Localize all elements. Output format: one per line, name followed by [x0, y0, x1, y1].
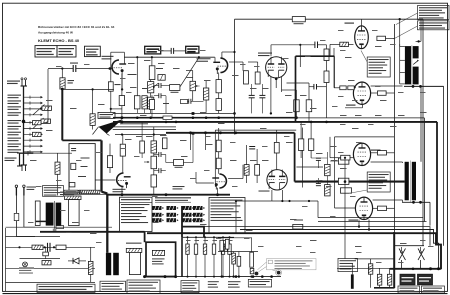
resistor on stub 7 [33, 132, 42, 136]
wire R67 [141, 122, 143, 141]
thick wire y231 [40, 231, 145, 233]
wire R2 to bus [110, 91, 112, 113]
resistor R49 screen4 [378, 206, 387, 210]
OT1 tap arrow [413, 61, 418, 65]
wire EL34-2 left [334, 87, 340, 89]
note text E [228, 281, 241, 287]
wire top y19 [235, 18, 424, 20]
resistor R54 psu [88, 261, 93, 274]
diagonal wire to V1b grid [180, 58, 199, 87]
wire EL34-4 left [335, 207, 356, 209]
wire tone top [161, 50, 172, 52]
filter capacitor C17 [195, 237, 197, 244]
terminal pin r3c3 [182, 218, 192, 222]
leader OT2 [348, 190, 367, 194]
speaker line 4 [240, 230, 439, 269]
resistor R36 [308, 139, 313, 151]
tube V4 [267, 170, 287, 190]
psu wire y282 [6, 281, 96, 283]
bus dots row [136, 116, 139, 119]
tube V3b [212, 174, 226, 190]
resistor R15 [255, 72, 260, 84]
terminal pin r3c2 [167, 218, 177, 222]
resistor R58 [237, 256, 241, 266]
wire R10 [218, 73, 220, 80]
tube EL34 no2 [353, 82, 370, 104]
filter cap label 5 [222, 239, 227, 242]
leader OT1 note [361, 51, 367, 63]
wire x424 down [423, 118, 425, 222]
component on bus [163, 116, 172, 119]
capacitor C4b [159, 93, 161, 98]
capacitor C10 [159, 168, 161, 173]
resistor R43 grid1 [340, 42, 349, 46]
resistor R51 bias [387, 274, 391, 285]
wire R60 top [326, 45, 328, 49]
resistor R25 [151, 141, 157, 153]
OT2 center line [409, 161, 411, 203]
wire r3536 [300, 122, 302, 139]
capacitor C1 [73, 65, 76, 72]
wire EL34-1 top [361, 19, 363, 25]
mains prong 2 [23, 187, 25, 196]
wire R28 [165, 155, 167, 163]
din strip title [155, 197, 191, 198]
note box OT1 [367, 57, 390, 77]
junction heater [61, 88, 64, 91]
label R28 [175, 167, 183, 168]
label under bus [120, 123, 148, 124]
wire R54 [90, 247, 92, 261]
wire EL34-1 left [330, 43, 340, 45]
bus thick y117 [113, 117, 296, 119]
wire R23 [109, 144, 111, 156]
input stub label 3 [8, 106, 22, 110]
wire R16 up [295, 90, 297, 100]
capacitor C11 [249, 147, 255, 149]
capacitor C23 psu [43, 252, 49, 256]
resistor R3 cathode [90, 114, 95, 126]
wire caps [251, 84, 253, 95]
input stub label 10 [8, 149, 22, 153]
filter capacitor C19 [213, 237, 215, 244]
capacitor C12 [316, 158, 321, 160]
input stub label 5 [8, 120, 22, 124]
wire R56 [150, 80, 152, 82]
label EL34 no4 [349, 220, 359, 221]
wire R64 [205, 100, 207, 113]
OT1 top stub [416, 40, 421, 42]
terminal pin r1c4 [193, 206, 203, 210]
label V4 [259, 191, 270, 192]
junction square bus1 [192, 112, 195, 115]
resistor R30 [216, 140, 221, 152]
note box C [181, 281, 199, 293]
T2 core bar right [113, 253, 119, 275]
label y224 [294, 220, 303, 221]
tube V1b [213, 58, 227, 74]
label EL34 no2 [346, 105, 356, 106]
wire R5 top [151, 57, 153, 66]
wire EL34-2 cathode [345, 107, 363, 109]
tube V3a [117, 173, 131, 188]
wire y237 mid [218, 237, 252, 239]
resistor R31 [216, 158, 221, 169]
OT1 dots [412, 85, 415, 88]
resistor R37 [325, 164, 331, 175]
osc labels [81, 158, 90, 159]
wire y201 V4 cathode [272, 200, 318, 202]
wire cathode rail [62, 88, 114, 90]
leader line to note lower [394, 26, 418, 39]
speaker box 2 [418, 274, 433, 285]
resistor on switch 1 [42, 106, 52, 110]
V2 pins down [270, 77, 272, 113]
input stub wire 5 [24, 122, 41, 124]
label Buchse top [7, 81, 20, 85]
resistor on switch 2 [41, 119, 51, 123]
resistor R56 [225, 239, 229, 249]
OT2 core bar left [405, 162, 409, 201]
speaker bottom thick [390, 268, 441, 270]
wire y129 thin [113, 129, 176, 131]
filter cap label 1 [186, 239, 191, 242]
heater wire y194 thick [107, 194, 230, 196]
resistor R13 [142, 96, 147, 109]
psu note box bottom [37, 284, 95, 292]
thick wire y132 [166, 132, 295, 134]
resistor R11 [216, 99, 221, 111]
T2 winding box [129, 252, 140, 274]
junction bus b [120, 120, 123, 123]
wire x423 down [422, 19, 424, 217]
wire x437 thick down [436, 122, 438, 244]
V3a bottom [121, 186, 123, 194]
capacitor C13 [316, 184, 321, 186]
V4 pins [271, 190, 273, 201]
resistor R20 left [55, 162, 60, 174]
resistor R17 [306, 100, 312, 112]
input stub wire 3 [24, 108, 41, 110]
wire R12 drop [136, 109, 138, 114]
wire grid3 feed [335, 136, 395, 138]
resistor R57 [232, 253, 236, 264]
psu dots y247 [44, 246, 46, 248]
rail bottom dots2 [235, 275, 238, 278]
enclosure right [302, 128, 304, 188]
junction y44 x300 [299, 44, 301, 46]
V1b top pin [214, 57, 216, 62]
wire C4c [188, 100, 189, 102]
wire net mid-right [311, 157, 327, 159]
resistor R14 [244, 71, 249, 84]
speaker line 3 [204, 227, 430, 246]
junction dots on y132 [189, 131, 192, 134]
wire socket2 cont [33, 152, 57, 154]
legend box 2 [57, 46, 76, 57]
wire h108 [111, 108, 122, 110]
wire y251 mid [218, 251, 258, 253]
diode D1 [73, 258, 79, 264]
input stub wire 4 [24, 114, 41, 116]
resistor R12 [134, 96, 140, 109]
resistor R21 osc [71, 163, 76, 169]
filter rail bottom [176, 276, 281, 278]
resistor R1 grid [60, 78, 65, 89]
junction h108 [110, 108, 112, 110]
label netztrafo [60, 192, 82, 193]
volume pot R63 [190, 81, 196, 90]
pilot lamp [23, 262, 28, 267]
pot wiper R6 [154, 83, 159, 87]
wire R3 top [92, 89, 94, 113]
heater wire jog [102, 192, 108, 194]
bus thin y118 right [296, 117, 424, 119]
wire screen1 [386, 37, 395, 39]
wire x430 down [429, 202, 431, 225]
trafo note box [43, 186, 64, 197]
resistor R7 pot [148, 97, 154, 109]
switch lever 2 [33, 118, 44, 129]
control label box HOEHEN [145, 46, 161, 54]
resistor R47 screen2 [378, 91, 387, 95]
resistor R6 pot [148, 82, 154, 93]
stub x190 [190, 133, 192, 150]
junction R3 [92, 88, 94, 90]
resistor R24 [120, 144, 125, 156]
filter rail left [181, 237, 183, 276]
resistor R26 pot [151, 156, 157, 169]
speaker bottom dots [429, 267, 432, 270]
wire EL34-3 plate [371, 161, 403, 163]
input stub wire 8 [24, 139, 41, 141]
wire bias bottoms [379, 285, 381, 288]
resistor R42 on y226 [293, 224, 303, 229]
wire input riser [47, 69, 49, 123]
resistor R52 psu [32, 245, 43, 249]
junction y57 c [198, 56, 200, 58]
resistor R50 bias [377, 274, 381, 285]
label R1 [68, 80, 75, 84]
terminal pin r3c4 [193, 218, 203, 222]
OT1 primary stub 4 [400, 83, 405, 85]
capacitor C4a [159, 83, 161, 88]
input stub wire 1 [24, 96, 41, 98]
stub x205 [205, 133, 207, 150]
psu wire y236 [6, 236, 61, 238]
input stub label 6 [8, 126, 22, 130]
resistor R28 box [174, 160, 184, 166]
pot wiper R26 [148, 161, 150, 163]
terminal pin r1c1 [152, 206, 162, 210]
resistor R46 grid2b [348, 86, 354, 90]
resistor R40 box [338, 178, 349, 184]
tube V2 [266, 57, 287, 78]
resistor R44 screen1 [377, 36, 386, 40]
wire y276 dots [221, 275, 223, 277]
T1 center stem [54, 201, 56, 230]
filter cap label 4 [213, 239, 218, 242]
junction y195 [121, 193, 124, 196]
label C1 [70, 63, 78, 64]
wire R11 bus [218, 110, 220, 113]
bus thin y127 [113, 126, 176, 128]
OT1 core bar right lower [413, 67, 419, 85]
input stub wire 9 [24, 145, 41, 147]
T1 bottom pad [53, 229, 57, 232]
label V1a ECC83 [102, 56, 114, 60]
filter cap label 3 [204, 239, 209, 242]
junction grid node [61, 67, 63, 69]
resistor R53 psu [56, 245, 66, 249]
border bottom second line [3, 293, 448, 295]
wire x334 down from y56 [334, 56, 336, 88]
V2 top wire [270, 45, 272, 56]
switch S2 [420, 247, 422, 251]
wire x236 drop [235, 201, 237, 233]
wire caps2 [154, 154, 159, 156]
label box C4c [181, 99, 188, 103]
capacitor C15 psu [48, 243, 51, 252]
label box small1 [64, 190, 78, 194]
enclosure left [214, 130, 216, 187]
lamp blob [255, 272, 259, 276]
T1 core bar left [46, 203, 54, 226]
wire x394 thick lower [393, 232, 395, 288]
wire drop 166 [165, 96, 167, 114]
EL34-4 bottom drops [358, 220, 360, 227]
wire x318 drop [317, 201, 319, 218]
capacitor C5 [249, 95, 255, 97]
label Buchse 2 [5, 158, 17, 162]
resistor R18 on y19 [292, 17, 305, 22]
input stub label 8 [8, 138, 22, 142]
speaker box 1 [400, 274, 415, 285]
resistor R62 grid3 [341, 155, 350, 160]
wire R63 top [192, 71, 194, 82]
resistor R45 grid2a [340, 86, 346, 90]
wire x334 vertical [334, 137, 336, 208]
resistor R27 [151, 175, 157, 187]
leader trem 2 [259, 267, 267, 272]
wire V1b to V2 [229, 61, 243, 63]
wire R1 top [61, 69, 63, 78]
din thick L [182, 227, 204, 238]
wire y195 thin seg [62, 194, 107, 196]
wire col151 [153, 127, 155, 141]
wire R16 bus [295, 112, 297, 118]
capacitor C6 [259, 95, 265, 97]
rectifier thick box [146, 242, 176, 276]
thick corner x144 [144, 232, 146, 242]
wire y134 long [115, 134, 166, 136]
junction bus a [120, 116, 123, 119]
speaker line 2 [318, 221, 427, 223]
rect bottom dots [143, 275, 146, 278]
label V3a [113, 189, 126, 192]
junction square bus2 [192, 132, 195, 135]
wire y268 left seg [337, 267, 390, 269]
switch drops [401, 260, 403, 269]
speaker line 1 [318, 218, 423, 246]
legend box 1 [35, 46, 57, 57]
T1 winding right box [69, 200, 80, 226]
resistor R9 box [170, 85, 180, 91]
label R2 [115, 84, 121, 85]
wire riser x234 low [234, 96, 236, 135]
switch S1 [401, 247, 403, 251]
wire R17 up [308, 83, 310, 100]
resistor R67 [140, 141, 145, 153]
resistor R5 [149, 66, 155, 80]
din note box [120, 197, 153, 231]
rect labels [152, 258, 165, 264]
resistor R10 anode [216, 80, 221, 93]
leader trem 1 [258, 262, 267, 270]
note box OT2 [367, 172, 390, 192]
T1 core bar right [56, 203, 62, 226]
bias note box [338, 258, 358, 271]
wire to V1a grid [48, 68, 73, 70]
selenium rectifier [152, 250, 164, 255]
wire C1 to grid resistor [76, 68, 113, 70]
filter capacitor C18 [204, 237, 206, 244]
wire R24 up [122, 135, 124, 145]
oscillator box [69, 144, 95, 191]
T1 winding right hat [65, 196, 81, 200]
thick rect bottom [146, 276, 176, 278]
OT1 primary stub 3 [400, 72, 405, 74]
wire mains to trafo [24, 226, 35, 228]
resistor R22 osc [69, 183, 75, 187]
input stub label 4 [8, 112, 22, 116]
input stub label 9 [8, 144, 22, 148]
filter cap label 6 [228, 239, 233, 242]
resistor R33 [255, 165, 260, 176]
speaker text box 1 [398, 286, 420, 293]
label R18 [294, 23, 304, 24]
misc value labels [30, 46, 427, 247]
speaker line 5 thick [147, 233, 441, 269]
wire R66 [151, 95, 153, 100]
input stub wire 7 [24, 133, 41, 135]
wires trem col [221, 251, 223, 277]
psu wire y247 [6, 246, 96, 248]
din thick vertical [181, 206, 183, 237]
enclosure top [215, 129, 296, 131]
wire long y57 [124, 56, 215, 58]
wire bias rail [355, 258, 394, 260]
label EL34 no3 [371, 150, 381, 151]
OT2 bottom wire [402, 201, 430, 203]
wire EL34-1 plate [399, 19, 401, 46]
label V1b ECC83 [197, 58, 211, 62]
mains prong 1 [15, 187, 17, 196]
wire R61 down [326, 83, 328, 87]
input socket bottom bracket [21, 164, 28, 166]
psu wire y258 [20, 258, 61, 260]
note text D [208, 281, 219, 287]
note box top-right upper [418, 6, 450, 20]
psu gray note [19, 267, 34, 273]
T1 stub [36, 220, 46, 222]
note box top-right lower [418, 21, 450, 30]
wire d1 [68, 260, 73, 262]
electrolytic C22 [250, 252, 254, 267]
V1a anode riser [110, 52, 112, 82]
wire x330 up [329, 44, 331, 56]
terminal pin r2c2 [167, 213, 177, 217]
